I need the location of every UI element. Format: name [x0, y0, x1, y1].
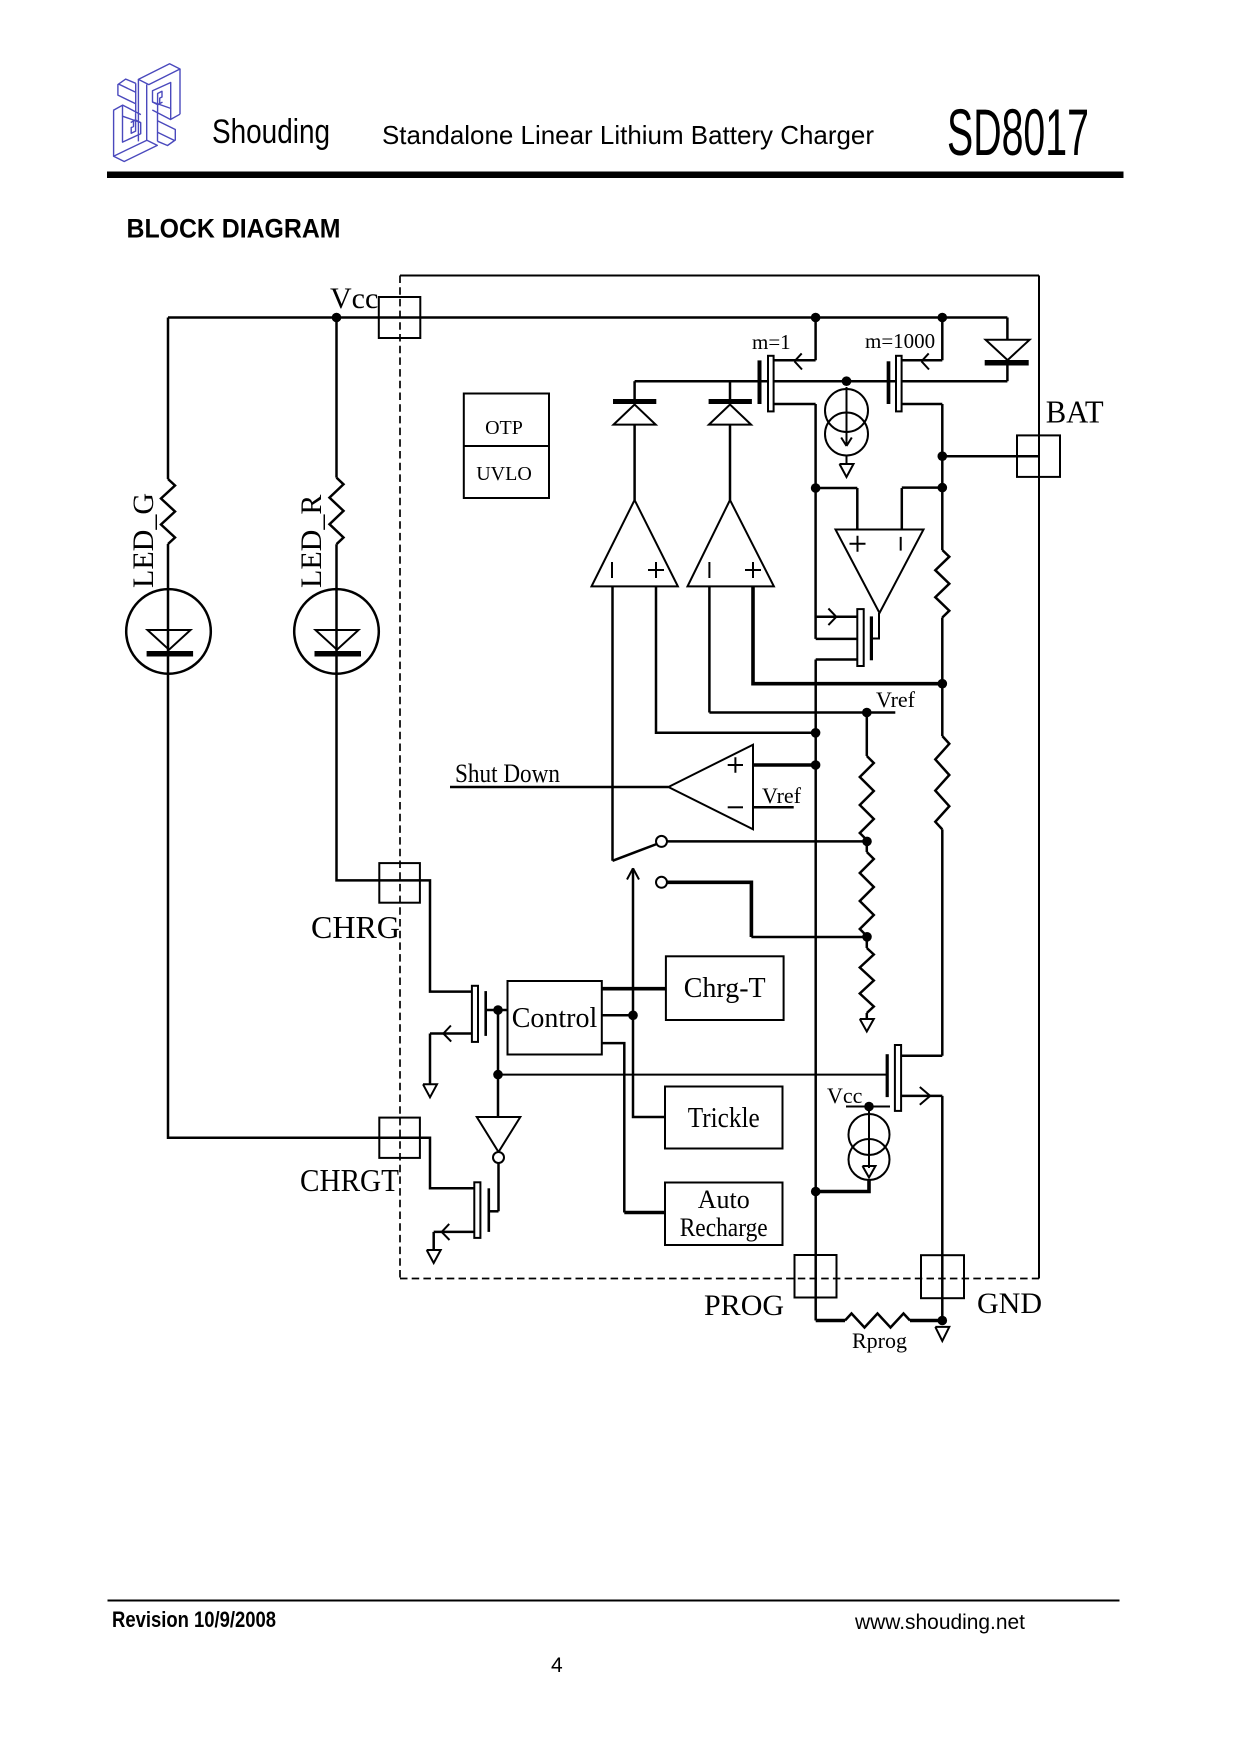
node gate node [493, 1005, 503, 1015]
wire Control mid output [602, 1014, 633, 1017]
wire Vcc rail [168, 316, 1007, 319]
resistor LED_R series [330, 478, 344, 545]
node GND junction [938, 1316, 948, 1326]
wire PROG vertical lower [814, 660, 817, 1321]
node Vcc to m=1000 source [938, 313, 948, 323]
minus mark U2 [728, 806, 743, 808]
switch throw arm [613, 844, 657, 861]
wire S2 to divider tap 2 [667, 882, 751, 937]
pin BAT square [1017, 435, 1060, 477]
svg-text:Shut Down: Shut Down [455, 759, 560, 788]
current source I2 circles [849, 1114, 890, 1155]
wire LED_G branch vertical [167, 318, 170, 480]
plus mark U2 [728, 757, 743, 772]
wire Rprog to GND node (thick) [910, 1319, 942, 1323]
svg-text:Vcc: Vcc [827, 1083, 863, 1108]
svg-text:CHRGT: CHRGT [300, 1162, 399, 1198]
current source I1 arrow [841, 387, 852, 446]
wire D1 to comparator A apex [633, 425, 636, 500]
transistor Q_PROG drain stub with arrow [816, 616, 858, 619]
wire S1 to divider tap [667, 840, 867, 843]
svg-text:Vref: Vref [876, 687, 916, 712]
IC boundary top edge [400, 275, 1039, 277]
wire comparator U1 minus input [902, 488, 943, 530]
box Trickle [665, 1087, 783, 1149]
wire Control mid down to Trickle [633, 1015, 665, 1117]
transistor m=1000 drain stub to BAT [902, 404, 943, 456]
diode D3 cathode bar [985, 360, 1029, 366]
transistor m=1000 gate bar [887, 361, 891, 404]
IC boundary right edge [1038, 276, 1040, 1279]
wire PROG pin to Rprog (thick) [816, 1319, 845, 1323]
transistor m=1000 channel [896, 356, 902, 412]
LED LED_G cathode bar [147, 651, 194, 657]
wire LED_G resistor to LED and down to CHRGT pin [168, 544, 474, 1188]
node on PROG vertical [811, 728, 821, 738]
wire gate bias line [635, 380, 1008, 383]
switch contact S1 [656, 836, 667, 847]
IC boundary bottom edge (dashed) [400, 1278, 1039, 1280]
pin Vcc square [379, 297, 421, 338]
LED LED_R circle [294, 589, 379, 674]
wire U1 output to Q_PROG gate [873, 613, 879, 639]
node Vcc junction LED_G branch is corner; LED_R tap dot [332, 313, 342, 323]
svg-text:Auto: Auto [698, 1185, 750, 1214]
transistor Q_CHRGT gate bar [487, 1188, 490, 1232]
minus mark comparator B [708, 562, 710, 578]
wire divider top [866, 713, 869, 757]
switch contact S2 [656, 877, 667, 888]
svg-text:www.shouding.net: www.shouding.net [854, 1610, 1025, 1634]
svg-text:UVLO: UVLO [476, 463, 532, 485]
node m=1 drain / PROG node junction [811, 483, 821, 493]
wire Q_CHRG source to ground [429, 1034, 432, 1085]
resistor R3 BAT chain [935, 736, 949, 829]
wire BAT node to pin [942, 455, 1039, 458]
current source I1 circles [825, 389, 868, 432]
wire D3 to bias line [1006, 366, 1009, 382]
header rule [107, 172, 1124, 179]
node Control mid junction [628, 1011, 638, 1021]
svg-text:Control: Control [512, 1003, 598, 1034]
wire BAT chain middle [941, 618, 944, 737]
node I2 top [864, 1102, 874, 1112]
svg-text:Standalone Linear Lithium Batt: Standalone Linear Lithium Battery Charge… [382, 120, 874, 150]
wire Vref line [709, 711, 895, 714]
plus mark U1 [850, 536, 866, 552]
resistor Rprog [845, 1314, 910, 1328]
inverter INV1 [477, 1117, 521, 1152]
plus mark comparator A [648, 562, 664, 578]
node comparator minus tap [938, 483, 948, 493]
svg-text:4: 4 [551, 1654, 563, 1677]
op-amp comparator B [688, 500, 774, 586]
svg-text:Recharge: Recharge [680, 1213, 768, 1242]
current source I2 arrow [863, 1111, 876, 1178]
diode D2 cathode bar [709, 399, 752, 404]
arrow on m=1000 source [922, 353, 930, 369]
wire BAT chain upper [941, 488, 944, 550]
wire comparator A plus input to PROG node [656, 586, 816, 732]
svg-text:m=1000: m=1000 [865, 329, 935, 353]
transistor m=1000 source stub to Vcc [902, 318, 943, 361]
resistor R2 BAT chain [935, 550, 949, 618]
box Control [508, 981, 602, 1055]
pin GND square [921, 1255, 964, 1298]
svg-text:CHRG: CHRG [311, 909, 400, 945]
transistor Q_PROG bulk stub [816, 638, 858, 641]
LED LED_R diode triangle [316, 630, 359, 650]
transistor Q_CHRG channel [472, 986, 478, 1042]
wire LED_R resistor to LED and down to CHRG pin [337, 544, 472, 991]
svg-text:OTP: OTP [485, 417, 523, 439]
transistor Q_GND drain stub [901, 1054, 942, 1057]
transistor Q_GND channel [895, 1045, 901, 1111]
diode D1 cathode bar [613, 399, 656, 404]
svg-text:LED_G: LED_G [127, 493, 160, 588]
open arrowhead divider bottom [860, 1019, 874, 1032]
resistor R1 divider [860, 756, 874, 840]
arrow on m=1 source [795, 353, 803, 369]
transistor Q_CHRG source stub with arrow [430, 1032, 472, 1035]
arrow control to switch [632, 868, 635, 1015]
op-amp comparator A [592, 500, 678, 586]
LED LED_G circle [126, 589, 211, 674]
svg-text:Rprog: Rprog [852, 1328, 907, 1353]
box Auto Recharge [665, 1183, 783, 1246]
node Vcc to m=1 source [811, 313, 821, 323]
ground Q_CHRGT [427, 1250, 441, 1263]
transistor Q_GND gate bar [886, 1054, 889, 1097]
svg-text:LED_R: LED_R [295, 495, 328, 588]
transistor Q_PROG source stub [816, 658, 858, 661]
node Vref to divider [862, 708, 872, 718]
ground symbol at GND [935, 1327, 949, 1341]
plus mark comparator B [745, 562, 761, 578]
op-amp U1 (current sense comparator, pointing down) [836, 530, 924, 614]
wire PROG vertical upper [814, 488, 817, 639]
minus mark U1 [900, 537, 902, 551]
svg-text:Chrg-T: Chrg-T [684, 973, 766, 1004]
wire Q_GND source down to GND pin [941, 1096, 944, 1321]
wire BAT chain to Q_GND drain [941, 829, 944, 1055]
wire comparator U1 plus input [816, 488, 858, 530]
wire BAT down [941, 456, 944, 487]
LED LED_G diode triangle [148, 630, 191, 650]
wire R1 to tap1 [866, 840, 869, 852]
diode D2 triangle [709, 405, 751, 425]
node PROG / I2 junction [811, 1187, 821, 1197]
wire I2 to PROG node [816, 1180, 869, 1192]
transistor Q_PROG channel [857, 609, 863, 666]
svg-text:PROG: PROG [704, 1289, 784, 1322]
pin CHRG square [379, 863, 420, 903]
transistor m=1 gate bar [758, 360, 762, 404]
svg-text:Vref: Vref [762, 783, 802, 808]
wire Control to Chrg-T (thick) [602, 987, 666, 991]
LED LED_R cathode bar [315, 651, 362, 657]
wire gate node down to inverter [497, 1010, 500, 1117]
wire diode D1 stub from bias line [633, 381, 636, 400]
svg-text:Vcc: Vcc [330, 282, 378, 315]
transistor Q_CHRG gate wire to Control [487, 1009, 508, 1012]
wire gate line to Q_GND [498, 1074, 886, 1076]
transistor m=1 drain stub down [774, 404, 816, 488]
svg-text:BAT: BAT [1046, 394, 1104, 430]
op-amp U2 shutdown comparator (pointing left) [668, 745, 753, 830]
box Chrg-T [666, 956, 784, 1020]
svg-text:m=1: m=1 [752, 330, 791, 354]
diode D3 (BAT) top wire from Vcc rail [1006, 318, 1009, 340]
wire diode D2 stub from bias line [729, 381, 732, 400]
wire shutdown line [450, 786, 668, 789]
ground Q_CHRG [423, 1084, 437, 1097]
transistor Q_CHRG gate bar [484, 991, 487, 1036]
node U2 plus tap [811, 760, 821, 770]
svg-text:SD8017: SD8017 [947, 95, 1089, 169]
node divider tap 1 [862, 837, 872, 847]
diode D1 triangle [614, 405, 656, 425]
footer rule [108, 1600, 1120, 1602]
transistor m=1 channel [768, 356, 774, 412]
wire Q_CHRGT source to ground [432, 1232, 435, 1250]
resistor R2 divider [860, 852, 874, 936]
wire divider bottom to arrow [866, 1013, 869, 1019]
resistor R3 divider [860, 948, 874, 1013]
node bias to current source I1 [842, 376, 852, 386]
minus mark comparator A [611, 562, 613, 578]
wire R2 to tap2 [866, 936, 869, 948]
node gate line tap [493, 1070, 503, 1080]
node BAT sense tap [938, 679, 948, 689]
wire Control bottom output to Auto Recharge [602, 1043, 625, 1212]
wire U2 minus input stub [753, 806, 794, 809]
IC boundary left edge (dashed) [399, 276, 401, 1279]
transistor Q_GND source stub with arrow [901, 1095, 942, 1098]
svg-text:Trickle: Trickle [688, 1103, 760, 1134]
transistor Q_CHRGT source stub with arrow [434, 1231, 475, 1234]
svg-text:BLOCK DIAGRAM: BLOCK DIAGRAM [127, 214, 341, 244]
resistor LED_G series [161, 479, 175, 544]
logo Shouding (isometric mark) [113, 64, 180, 162]
wire comparator B plus input to BAT node [753, 586, 942, 683]
wire Vcc bar I2 [846, 1106, 890, 1108]
node BAT junction [938, 451, 948, 461]
current source I1 output open arrowhead [840, 456, 854, 478]
pin CHRGT square [379, 1118, 420, 1158]
wire D2 to comparator B apex [729, 425, 732, 500]
wire LED_R branch vertical [335, 318, 338, 478]
diode D3 triangle (pointing down) [986, 340, 1030, 360]
transistor m=1 source stub to Vcc [774, 318, 816, 361]
inverter bubble [493, 1152, 504, 1163]
pin PROG square [795, 1255, 837, 1298]
transistor Q_CHRGT channel [474, 1182, 480, 1238]
wire U2 plus input to PROG node [753, 763, 816, 767]
wire inverter output to Q_CHRGT gate [497, 1163, 500, 1211]
wire comparator B inverting input to Vref line [708, 586, 711, 712]
svg-text:GND: GND [977, 1287, 1042, 1320]
box OTP/UVLO [464, 394, 549, 499]
transistor Q_CHRGT gate tick [490, 1210, 499, 1213]
svg-text:Revision 10/9/2008: Revision 10/9/2008 [112, 1607, 276, 1632]
node divider tap 2 [862, 932, 872, 942]
wire comparator A inverting input down to switch [611, 586, 614, 860]
transistor Q_PROG gate bar [870, 616, 873, 660]
svg-text:Shouding: Shouding [212, 113, 330, 151]
